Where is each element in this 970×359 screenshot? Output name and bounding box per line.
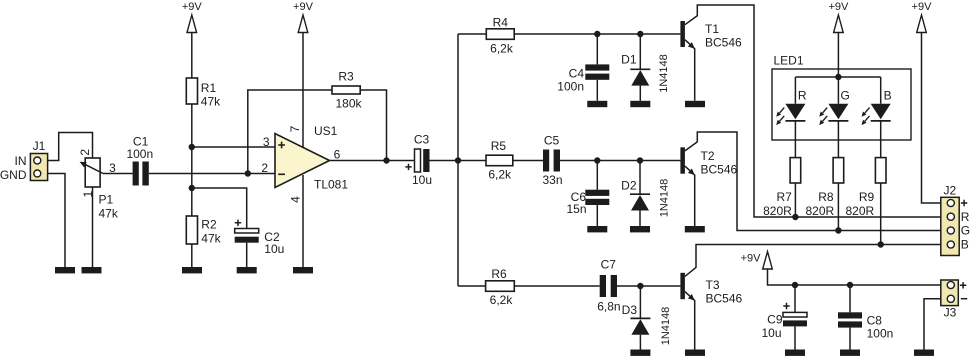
- value 47k: [99, 207, 119, 221]
- resistor R6: [486, 281, 515, 292]
- svg-text:100n: 100n: [867, 327, 894, 341]
- wire: [246, 243, 248, 267]
- potentiometer P1: [80, 158, 103, 187]
- label D3: [622, 303, 638, 317]
- wire: [513, 160, 543, 162]
- ground: [840, 350, 860, 356]
- label D1: [621, 53, 637, 67]
- wire: [880, 121, 882, 158]
- wire: [596, 161, 598, 190]
- node: [637, 31, 643, 37]
- value 6,2k: [488, 168, 512, 182]
- LED B: [862, 104, 891, 125]
- svg-text:US1: US1: [314, 124, 338, 138]
- wire: [149, 173, 275, 175]
- node: [594, 31, 600, 37]
- pin 1: [81, 190, 95, 197]
- value 47k: [201, 232, 221, 246]
- diode D3: [630, 318, 650, 334]
- diode D1: [630, 69, 650, 85]
- node: [637, 157, 643, 163]
- value 1N4148: [659, 179, 671, 218]
- wire: [192, 188, 247, 229]
- label R: [798, 89, 807, 103]
- label C6: [571, 190, 587, 204]
- svg-text:820R: 820R: [846, 204, 875, 218]
- svg-text:R: R: [961, 210, 970, 224]
- pin 7: [288, 125, 302, 132]
- svg-text:6: 6: [334, 148, 341, 162]
- ground: [182, 267, 202, 273]
- svg-text:47k: 47k: [99, 207, 119, 221]
- svg-text:T1: T1: [705, 22, 719, 36]
- label R7: [776, 190, 792, 204]
- label BC546: [705, 36, 742, 50]
- svg-text:R9: R9: [859, 190, 875, 204]
- svg-text:BC546: BC546: [705, 36, 742, 50]
- value 820R: [806, 204, 835, 218]
- svg-text:C7: C7: [601, 258, 617, 272]
- svg-text:D2: D2: [621, 179, 637, 193]
- wire: [639, 286, 641, 318]
- node: [878, 241, 884, 247]
- svg-text:47k: 47k: [201, 232, 221, 246]
- label T2: [701, 149, 715, 163]
- wire: [458, 33, 486, 35]
- svg-text:6,2k: 6,2k: [488, 168, 512, 182]
- pin 2: [78, 149, 92, 156]
- wire: [457, 34, 459, 286]
- value 33n: [542, 173, 562, 187]
- node: [835, 227, 841, 233]
- ground: [914, 350, 934, 356]
- svg-text:R3: R3: [338, 70, 354, 84]
- transistor Q3: [680, 273, 685, 299]
- svg-text:C5: C5: [544, 134, 560, 148]
- transistor Q2: [680, 147, 685, 173]
- wire: [596, 34, 598, 64]
- resistor R2: [186, 216, 197, 244]
- resistor R9: [875, 158, 886, 183]
- wire: [685, 5, 941, 217]
- label P1: [99, 193, 114, 207]
- pin 6: [334, 148, 341, 162]
- wire: [794, 183, 796, 217]
- ground: [587, 101, 607, 107]
- capacitor C5: [543, 150, 560, 172]
- svg-text:B: B: [884, 89, 892, 103]
- wire: [302, 33, 304, 149]
- wire: [92, 187, 94, 267]
- label C2: [264, 230, 280, 244]
- connector J2: [941, 184, 959, 256]
- label B: [884, 89, 892, 103]
- label R9: [859, 190, 875, 204]
- pin 4: [289, 196, 303, 203]
- svg-text:R4: R4: [493, 16, 509, 30]
- svg-text:R6: R6: [491, 267, 507, 281]
- value 820R: [763, 204, 792, 218]
- svg-text:C3: C3: [414, 133, 430, 147]
- wire: [880, 77, 882, 104]
- svg-text:R5: R5: [491, 139, 507, 153]
- wire: [880, 183, 882, 245]
- svg-text:BC546: BC546: [701, 163, 738, 177]
- svg-text:7: 7: [288, 125, 302, 132]
- value 100n: [557, 80, 584, 94]
- resistor R7: [790, 158, 801, 183]
- wire: [794, 121, 796, 158]
- capacitor C7: [600, 275, 617, 297]
- label C9: [767, 313, 783, 327]
- svg-text:R8: R8: [818, 190, 834, 204]
- svg-text:4: 4: [289, 196, 303, 203]
- node: [189, 185, 195, 191]
- label C8: [867, 314, 883, 328]
- connector J1: [30, 139, 47, 181]
- power +9V: [912, 1, 933, 32]
- pin +: [960, 282, 966, 288]
- ground: [587, 226, 607, 232]
- label C1: [133, 135, 149, 149]
- svg-text:T2: T2: [701, 149, 715, 163]
- svg-text:10u: 10u: [264, 242, 284, 256]
- svg-text:T3: T3: [706, 278, 720, 292]
- svg-text:+9V: +9V: [293, 1, 314, 13]
- value 10u: [264, 242, 284, 256]
- wire: [837, 121, 839, 158]
- svg-text:R7: R7: [776, 190, 792, 204]
- label US1: [314, 124, 338, 138]
- ground: [293, 267, 313, 273]
- transistor Q1: [680, 21, 685, 47]
- wire: [768, 269, 941, 285]
- svg-text:R2: R2: [201, 218, 217, 232]
- label BC546: [706, 291, 743, 305]
- label R8: [818, 190, 834, 204]
- wire: [596, 205, 598, 226]
- wire: [560, 160, 680, 162]
- label BC546: [701, 163, 738, 177]
- svg-text:C9: C9: [767, 313, 783, 327]
- node: [383, 157, 389, 163]
- op-amp U1: [275, 134, 330, 188]
- ground: [685, 101, 705, 107]
- wire: [849, 328, 851, 350]
- svg-text:J1: J1: [33, 139, 46, 153]
- svg-text:R: R: [798, 89, 807, 103]
- svg-text:820R: 820R: [763, 204, 792, 218]
- node: [189, 144, 195, 150]
- svg-text:D3: D3: [622, 303, 638, 317]
- svg-text:LED1: LED1: [774, 54, 804, 68]
- wire: [639, 86, 641, 101]
- ground: [685, 350, 705, 356]
- wire: [430, 160, 487, 162]
- value 180k: [335, 97, 362, 111]
- svg-text:1: 1: [81, 190, 95, 197]
- value 6,2k: [490, 293, 514, 307]
- value 10u: [412, 173, 432, 187]
- wire: [639, 335, 641, 350]
- wire: [191, 33, 193, 79]
- svg-text:1N4148: 1N4148: [660, 307, 672, 346]
- value 47k: [201, 95, 221, 109]
- svg-text:33n: 33n: [542, 173, 562, 187]
- connector J3: [941, 280, 959, 320]
- svg-text:J3: J3: [944, 306, 957, 320]
- svg-text:6,2k: 6,2k: [490, 293, 514, 307]
- svg-text:10u: 10u: [761, 326, 781, 340]
- power +9V: [182, 1, 203, 32]
- svg-text:TL081: TL081: [314, 178, 348, 192]
- power +9V: [828, 1, 849, 32]
- wire: [192, 146, 275, 148]
- pin +: [961, 200, 967, 206]
- resistor R1: [186, 78, 197, 104]
- svg-text:G: G: [961, 224, 970, 238]
- wire: [360, 90, 386, 161]
- wire: [924, 299, 941, 350]
- value 1N4148: [660, 307, 672, 346]
- wire: [514, 33, 680, 35]
- node: [245, 170, 251, 176]
- capacitor C9: [783, 303, 807, 327]
- wire: [514, 285, 599, 287]
- label TL081: [314, 178, 348, 192]
- svg-text:6,2k: 6,2k: [490, 41, 514, 55]
- label C4: [569, 67, 585, 81]
- resistor R8: [833, 158, 844, 183]
- LED module LED1: [772, 69, 911, 140]
- node: [594, 157, 600, 163]
- resistor R3: [332, 86, 360, 94]
- node: [455, 157, 461, 163]
- svg-text:100n: 100n: [126, 147, 153, 161]
- svg-text:3: 3: [263, 135, 270, 149]
- pin -: [961, 298, 968, 300]
- svg-text:+9V: +9V: [182, 1, 203, 13]
- node: [792, 214, 798, 220]
- svg-text:GND: GND: [0, 168, 27, 182]
- wire: [191, 244, 193, 267]
- wire: [685, 292, 695, 350]
- svg-text:+9V: +9V: [828, 1, 849, 13]
- wire: [103, 173, 133, 175]
- value 10u: [761, 326, 781, 340]
- pin R: [961, 210, 970, 224]
- value 6,2k: [490, 41, 514, 55]
- svg-text:G: G: [841, 89, 850, 103]
- label C5: [544, 134, 560, 148]
- LED G: [819, 104, 848, 125]
- pin B: [961, 238, 969, 252]
- label T1: [705, 22, 719, 36]
- svg-text:C4: C4: [569, 67, 585, 81]
- svg-text:1N4148: 1N4148: [658, 54, 670, 93]
- pin 2: [261, 161, 268, 175]
- wire: [794, 326, 796, 349]
- capacitor C4: [585, 64, 609, 79]
- svg-text:47k: 47k: [201, 95, 221, 109]
- wire: [849, 285, 851, 312]
- capacitor C2: [235, 220, 259, 243]
- wire: [685, 40, 695, 101]
- label R2: [201, 218, 217, 232]
- label R3: [338, 70, 354, 84]
- ground: [82, 267, 102, 273]
- ground: [630, 226, 650, 232]
- wire: [837, 33, 839, 78]
- label C7: [601, 258, 617, 272]
- wire: [596, 80, 598, 101]
- svg-text:10u: 10u: [412, 173, 432, 187]
- wire: [330, 160, 415, 162]
- wire: [837, 77, 839, 104]
- wire: [191, 104, 193, 216]
- svg-text:D1: D1: [621, 53, 637, 67]
- ground: [237, 267, 257, 273]
- capacitor C1: [133, 162, 149, 186]
- wire: [922, 33, 941, 204]
- label G: [841, 89, 850, 103]
- node: [835, 74, 841, 80]
- wire: [794, 285, 796, 312]
- wire: [794, 77, 796, 104]
- pin 3: [109, 161, 116, 175]
- value 15n: [566, 202, 586, 216]
- ground: [630, 350, 650, 356]
- svg-text:6,8n: 6,8n: [597, 300, 620, 314]
- svg-text:100n: 100n: [557, 80, 584, 94]
- pin G: [961, 224, 970, 238]
- svg-text:820R: 820R: [806, 204, 835, 218]
- wire: [685, 166, 695, 226]
- ground: [785, 350, 805, 356]
- ground: [55, 267, 75, 273]
- power +9V: [741, 252, 773, 270]
- svg-text:+9V: +9V: [741, 253, 762, 265]
- value 6,8n: [597, 300, 620, 314]
- resistor R5: [486, 155, 513, 166]
- wire: [685, 245, 941, 277]
- wire: [37, 133, 92, 161]
- capacitor C6: [585, 190, 609, 205]
- svg-text:R1: R1: [201, 81, 217, 95]
- value 1N4148: [658, 54, 670, 93]
- label R1: [201, 81, 217, 95]
- svg-text:C8: C8: [867, 314, 883, 328]
- value 820R: [846, 204, 875, 218]
- svg-text:+9V: +9V: [912, 1, 933, 13]
- value 100n: [867, 327, 894, 341]
- wire: [639, 211, 641, 227]
- wire: [639, 34, 641, 69]
- label T3: [706, 278, 720, 292]
- diode D2: [630, 194, 650, 210]
- label D2: [621, 179, 637, 193]
- wire: [302, 175, 304, 267]
- node: [792, 282, 798, 288]
- value 100n: [126, 147, 153, 161]
- svg-text:1N4148: 1N4148: [659, 179, 671, 218]
- power +9V: [293, 1, 314, 32]
- pin 3: [263, 135, 270, 149]
- capacitor C8: [838, 312, 862, 327]
- label GND: [0, 168, 27, 182]
- ground: [685, 226, 705, 232]
- svg-text:B: B: [961, 238, 969, 252]
- node: [637, 283, 643, 289]
- wire: [795, 76, 880, 78]
- svg-text:IN: IN: [15, 154, 27, 168]
- svg-text:2: 2: [261, 161, 268, 175]
- label IN: [15, 154, 27, 168]
- label R4: [493, 16, 509, 30]
- svg-text:180k: 180k: [335, 97, 362, 111]
- wire: [458, 285, 486, 287]
- wire: [248, 90, 332, 174]
- wire: [685, 132, 941, 231]
- svg-text:J2: J2: [943, 184, 956, 198]
- LED R: [776, 104, 805, 125]
- wire: [837, 183, 839, 231]
- label R6: [491, 267, 507, 281]
- label LED1: [774, 54, 804, 68]
- resistor R4: [486, 29, 514, 40]
- svg-text:P1: P1: [99, 193, 114, 207]
- capacitor C3: [405, 149, 429, 172]
- svg-text:BC546: BC546: [706, 291, 743, 305]
- label C3: [414, 133, 430, 147]
- svg-text:2: 2: [78, 149, 92, 156]
- ground: [630, 101, 650, 107]
- wire: [37, 174, 65, 268]
- wire: [617, 285, 680, 287]
- label R5: [491, 139, 507, 153]
- node: [847, 282, 853, 288]
- wire: [639, 161, 641, 195]
- svg-text:15n: 15n: [566, 202, 586, 216]
